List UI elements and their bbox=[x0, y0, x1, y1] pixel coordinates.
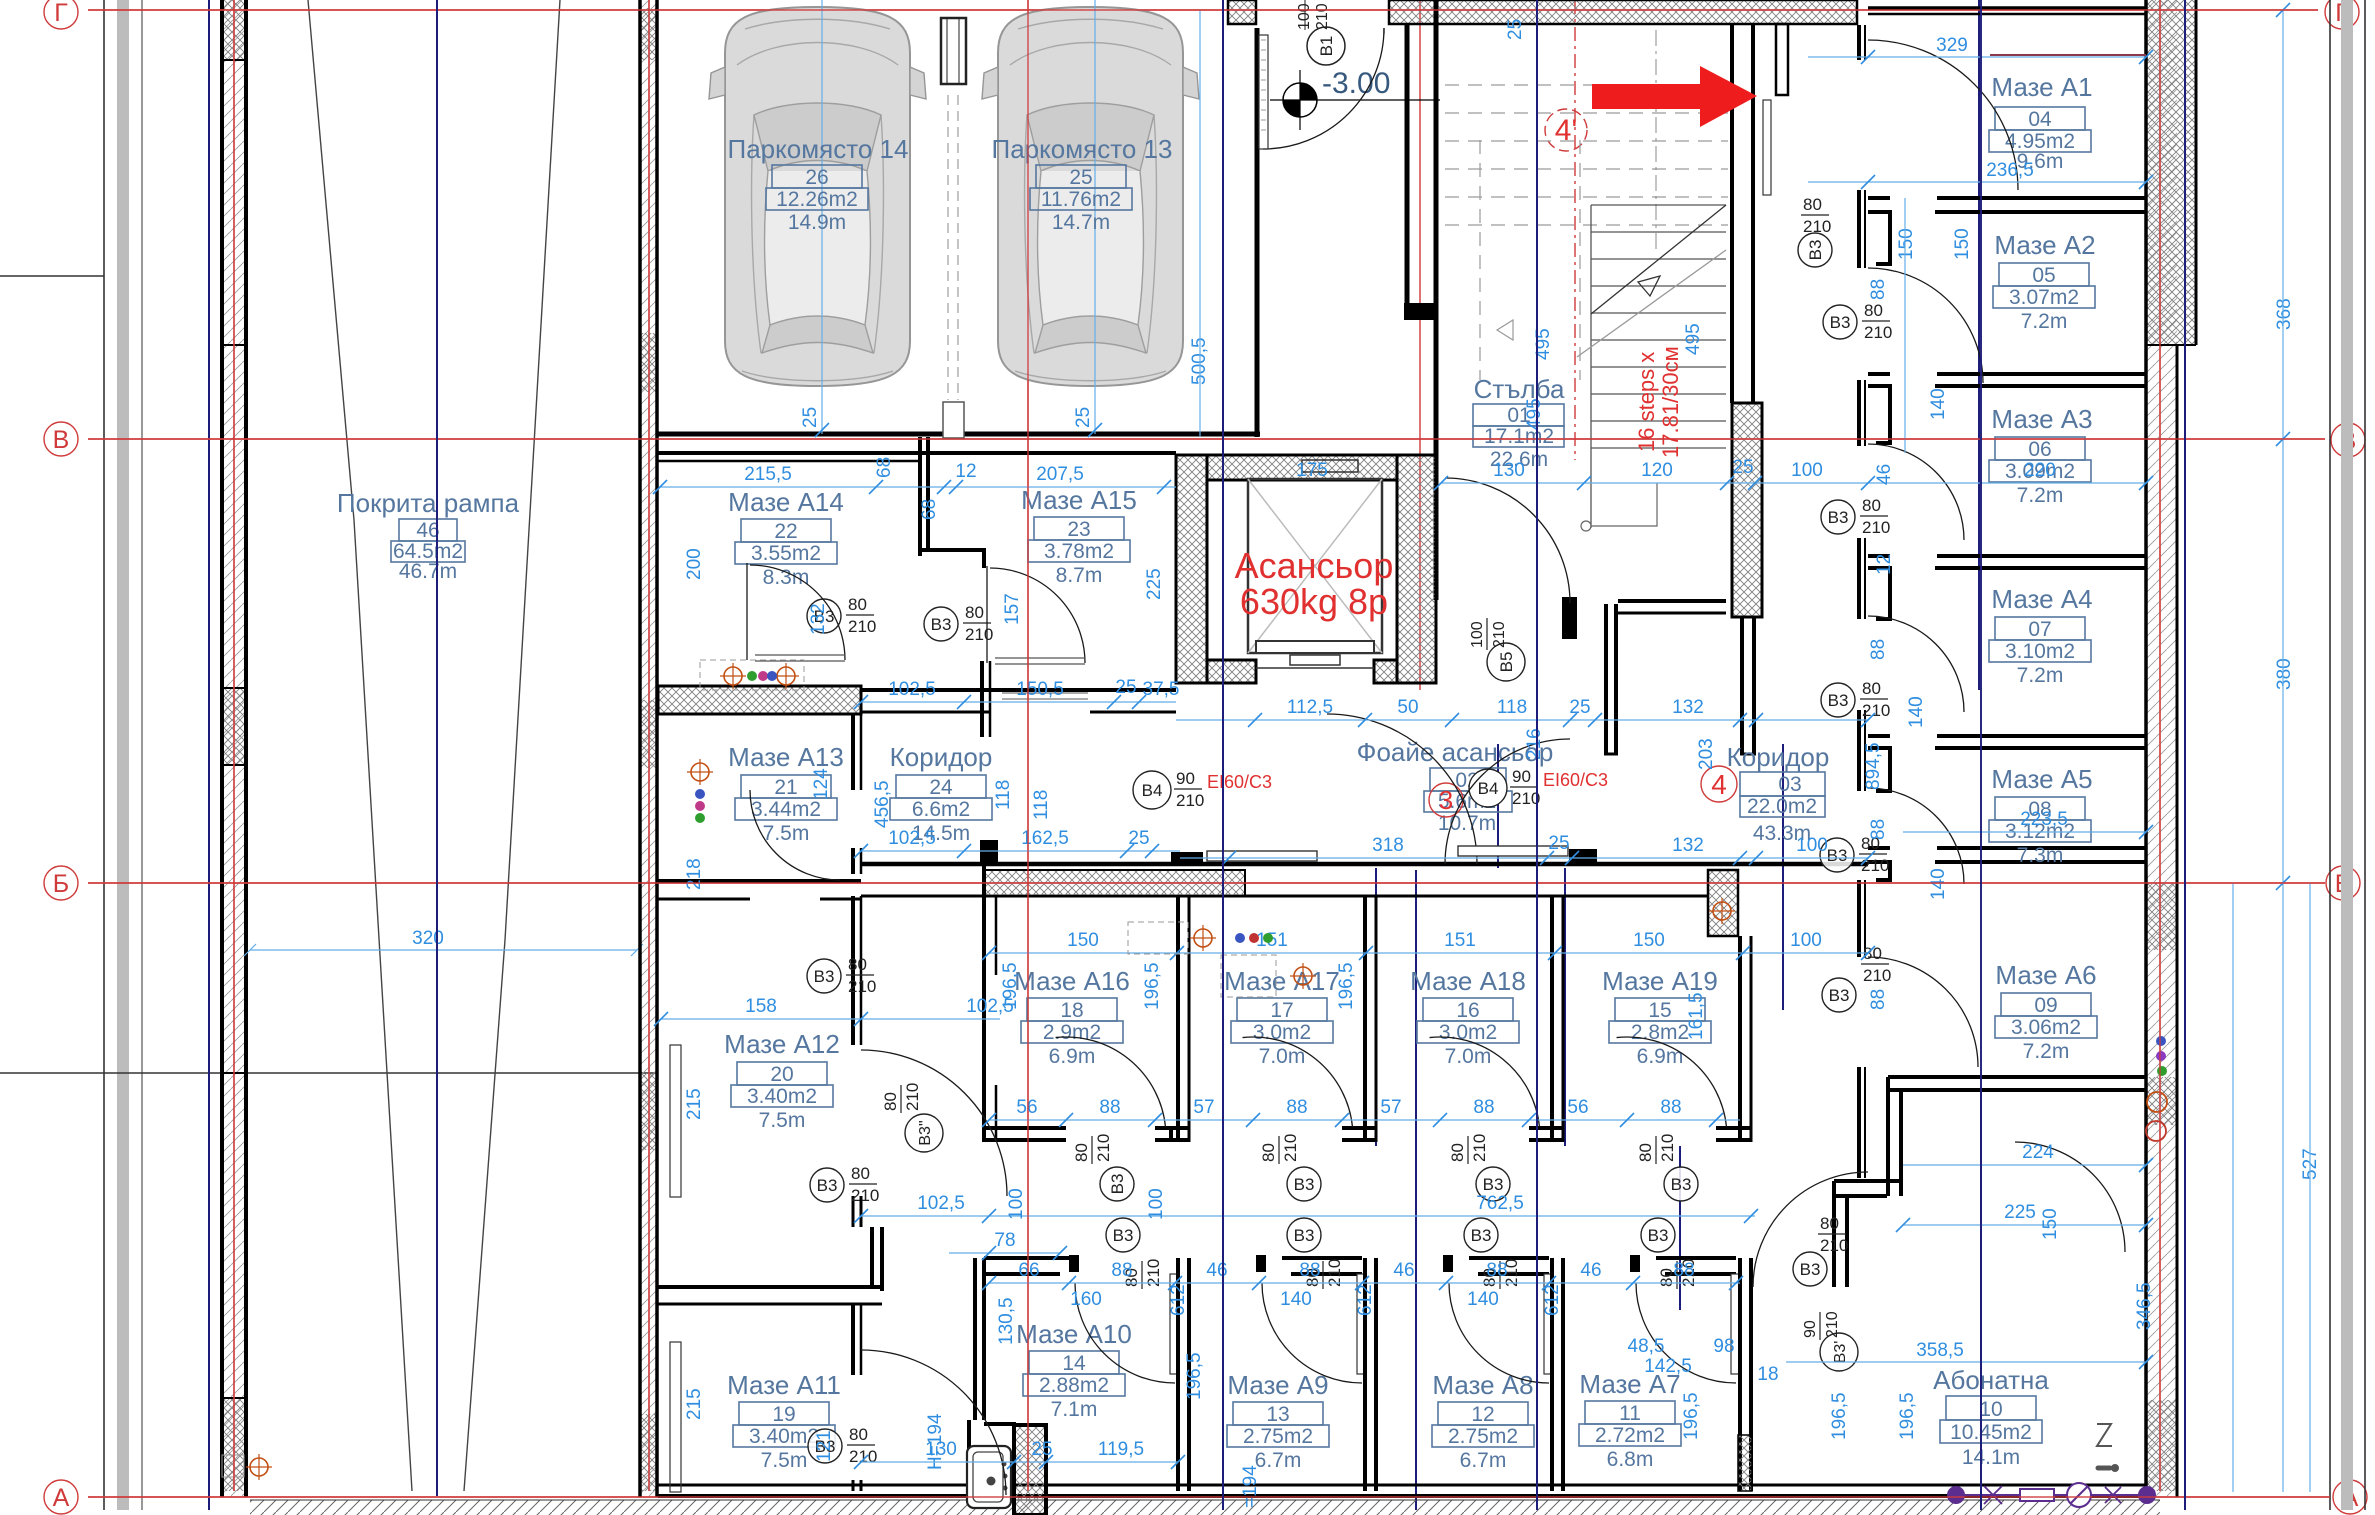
svg-text:196,5: 196,5 bbox=[1681, 1392, 1702, 1440]
door arc B4 foyer bbox=[1445, 739, 1597, 864]
svg-text:200: 200 bbox=[684, 548, 705, 580]
svg-text:Мазе А2: Мазе А2 bbox=[1994, 230, 2095, 260]
svg-text:Паркомясто 14: Паркомясто 14 bbox=[728, 134, 909, 164]
svg-text:23: 23 bbox=[1067, 518, 1090, 541]
svg-text:88: 88 bbox=[1673, 1260, 1694, 1281]
svg-text:102,5: 102,5 bbox=[917, 1193, 965, 1214]
svg-text:88: 88 bbox=[1286, 1097, 1307, 1118]
dim chain 236,5 bbox=[1808, 160, 2153, 189]
door arc А3 bbox=[1868, 444, 1964, 540]
door arc А5 bbox=[1868, 788, 1964, 884]
door arc А19 bbox=[1617, 1027, 1727, 1137]
wire: thin site line bbox=[141, 0, 143, 1510]
label: Паркомясто 13 bbox=[992, 134, 1173, 234]
svg-text:612: 612 bbox=[1355, 1284, 1376, 1316]
svg-text:630kg 8p: 630kg 8p bbox=[1240, 581, 1388, 622]
door arc А8 bbox=[1449, 1283, 1549, 1383]
svg-text:102,5: 102,5 bbox=[888, 828, 936, 849]
svg-text:7.2m: 7.2m bbox=[2017, 664, 2064, 687]
svg-text:25: 25 bbox=[1548, 833, 1569, 854]
label: Паркомясто 14 bbox=[728, 134, 909, 234]
svg-text:6.7m: 6.7m bbox=[1255, 1449, 1302, 1472]
svg-text:132: 132 bbox=[808, 603, 829, 635]
wire: long hline left at 1073 bbox=[0, 1072, 658, 1074]
svg-text:57: 57 bbox=[1193, 1097, 1214, 1118]
label: axis 4' bbox=[1545, 109, 1587, 151]
svg-text:218: 218 bbox=[684, 858, 705, 890]
door tag B3' bottom bbox=[1802, 1311, 1858, 1371]
svg-text:88: 88 bbox=[1868, 279, 1889, 300]
node: navy axis x1979 upper bbox=[1978, 0, 1980, 690]
wall: parking/lobby separator x1257 bbox=[1255, 28, 1260, 437]
svg-text:150,5: 150,5 bbox=[1016, 679, 1064, 700]
svg-text:3.0m2: 3.0m2 bbox=[1253, 1021, 1311, 1044]
door arc А9 bbox=[1262, 1283, 1362, 1383]
wall: door stub top corridor bbox=[1763, 24, 1788, 195]
svg-text:132: 132 bbox=[1672, 697, 1704, 718]
svg-text:4': 4' bbox=[1555, 114, 1577, 147]
label: red circle 3 bbox=[1429, 783, 1463, 817]
wall: stairwell right wall x1730-1755 bbox=[1732, 24, 1762, 617]
wire: site boundary line left bbox=[103, 0, 105, 1510]
svg-text:25: 25 bbox=[1505, 19, 1526, 40]
svg-text:236,5: 236,5 bbox=[1986, 160, 2034, 181]
svg-text:B4: B4 bbox=[1142, 781, 1163, 800]
bottom hatch strip bbox=[250, 1500, 2160, 1515]
label: Покрита рампа bbox=[337, 488, 520, 583]
svg-text:3.40m2: 3.40m2 bbox=[747, 1085, 817, 1108]
svg-text:3.78m2: 3.78m2 bbox=[1044, 540, 1114, 563]
svg-text:7.2m: 7.2m bbox=[2023, 1040, 2070, 1063]
svg-text:15: 15 bbox=[1648, 999, 1671, 1022]
svg-text:225: 225 bbox=[2004, 1202, 2036, 1223]
door arc А4 bbox=[1868, 616, 1964, 712]
svg-text:196,5: 196,5 bbox=[1000, 962, 1021, 1010]
svg-text:6.8m: 6.8m bbox=[1607, 1448, 1654, 1471]
svg-text:68: 68 bbox=[919, 499, 940, 520]
svg-text:320: 320 bbox=[412, 928, 444, 949]
svg-text:14.9m: 14.9m bbox=[788, 211, 846, 234]
svg-text:Коридор: Коридор bbox=[890, 742, 993, 772]
door tag B3 А12 bbox=[810, 1164, 879, 1205]
svg-text:140: 140 bbox=[1928, 868, 1949, 900]
svg-text:612: 612 bbox=[1168, 1284, 1189, 1316]
label: Мазе А14 bbox=[728, 487, 844, 589]
stairs upper flight dashed bbox=[1445, 85, 1728, 380]
svg-text:88: 88 bbox=[1099, 1097, 1120, 1118]
label: Мазе А19 bbox=[1602, 966, 1718, 1068]
svg-text:22: 22 bbox=[774, 520, 797, 543]
wall: right outer wall bbox=[2146, 0, 2196, 1497]
wall: A12 right wall x857 bbox=[853, 896, 861, 1227]
svg-text:118: 118 bbox=[1497, 697, 1527, 718]
svg-text:B3': B3' bbox=[1832, 1341, 1849, 1364]
svg-text:6.6m2: 6.6m2 bbox=[912, 798, 970, 821]
node: navy axis x1537 bbox=[1536, 0, 1538, 1510]
grid line Б bbox=[44, 866, 2360, 900]
car at parking 13 bbox=[982, 7, 1199, 386]
wall: left outer wall bbox=[639, 0, 658, 1497]
svg-text:6.9m: 6.9m bbox=[1637, 1045, 1684, 1068]
label: Мазе А7 bbox=[1579, 1369, 1681, 1471]
svg-text:140: 140 bbox=[1467, 1289, 1499, 1310]
svg-text:17: 17 bbox=[1270, 999, 1293, 1022]
label: Мазе А4 bbox=[1989, 584, 2093, 687]
dim chain y905 left bbox=[854, 828, 1180, 858]
wall: stairwell/corridor wall x1862 upper bbox=[1859, 25, 1865, 1178]
svg-text:17.81/30см: 17.81/30см bbox=[1658, 346, 1683, 458]
dim chain left top: 215,5 / 68 / 12 / 207,5 bbox=[653, 457, 1176, 520]
door tags B3 row under A16-A19 rotated labels bbox=[1072, 1134, 1134, 1201]
svg-text:142,5: 142,5 bbox=[1644, 1356, 1692, 1377]
node: red axis x2160 bbox=[2159, 0, 2161, 1491]
wall: parking bottom bbox=[658, 432, 1260, 437]
svg-text:88: 88 bbox=[1660, 1097, 1681, 1118]
svg-text:46: 46 bbox=[1393, 1260, 1414, 1281]
svg-text:19: 19 bbox=[772, 1403, 795, 1426]
svg-text:25: 25 bbox=[800, 407, 821, 428]
svg-text:7.3m: 7.3m bbox=[2017, 844, 2064, 867]
svg-text:25: 25 bbox=[1073, 407, 1094, 428]
svg-text:Б: Б bbox=[53, 870, 69, 898]
dim ticks top y33 bbox=[1505, 19, 1526, 40]
wall: room separator A5/A6 bbox=[1868, 848, 2146, 880]
svg-text:06: 06 bbox=[2028, 438, 2051, 461]
svg-text:25: 25 bbox=[1115, 677, 1136, 698]
wall hatch block A7 right bbox=[1738, 1435, 1752, 1491]
purple valve line bottom right bbox=[1948, 1460, 2155, 1507]
svg-text:3.06m2: 3.06m2 bbox=[2011, 1016, 2081, 1039]
svg-text:102,5: 102,5 bbox=[888, 679, 936, 700]
svg-text:100: 100 bbox=[1006, 1188, 1027, 1220]
svg-text:216: 216 bbox=[1524, 728, 1545, 760]
door arc А18 bbox=[1430, 1027, 1540, 1137]
dim chain top right 329 bbox=[1808, 35, 2153, 64]
svg-text:358,5: 358,5 bbox=[1916, 1340, 1964, 1361]
stairs arrow glyph bbox=[1497, 320, 1513, 340]
svg-text:150: 150 bbox=[2040, 1208, 2061, 1240]
symbols right wall stack bbox=[2146, 1036, 2167, 1141]
svg-text:215,5: 215,5 bbox=[744, 464, 792, 485]
svg-text:151: 151 bbox=[1444, 930, 1476, 951]
svg-text:Мазе А13: Мазе А13 bbox=[728, 742, 844, 772]
wall: corridor24 right x974 bbox=[980, 661, 998, 864]
door arc corridor03 bottom bbox=[1753, 1172, 1868, 1287]
svg-text:140: 140 bbox=[1280, 1289, 1312, 1310]
svg-text:6.7m: 6.7m bbox=[1460, 1449, 1507, 1472]
symbol at A18 top bbox=[1221, 955, 1316, 997]
door tag B5 bbox=[1469, 618, 1525, 681]
stairs leader circle bbox=[1581, 483, 1657, 531]
node: red axis x1028 bbox=[1027, 0, 1029, 1491]
wall: top band right of lobby door bbox=[1389, 0, 1857, 24]
svg-text:203: 203 bbox=[1696, 738, 1717, 770]
svg-text:7.0m: 7.0m bbox=[1445, 1045, 1492, 1068]
label: Мазе А9 bbox=[1227, 1370, 1329, 1472]
label: Фоайе асансьор 02 bbox=[1357, 737, 1554, 835]
svg-text:118: 118 bbox=[993, 780, 1014, 810]
node: red dashed axis 4' x1575 bbox=[1574, 0, 1576, 460]
svg-text:130: 130 bbox=[925, 1439, 957, 1460]
svg-text:456,5: 456,5 bbox=[872, 780, 893, 828]
svg-text:03: 03 bbox=[1778, 773, 1801, 796]
svg-text:90: 90 bbox=[1802, 1320, 1819, 1338]
svg-text:210: 210 bbox=[1824, 1311, 1841, 1338]
svg-text:90: 90 bbox=[1512, 767, 1531, 786]
label: Мазе А15 bbox=[1021, 485, 1137, 587]
wall: stair bottom wall bbox=[1562, 597, 1726, 639]
svg-text:157: 157 bbox=[1002, 593, 1023, 625]
svg-text:Мазе А10: Мазе А10 bbox=[1016, 1319, 1132, 1349]
svg-text:2.75m2: 2.75m2 bbox=[1243, 1425, 1313, 1448]
svg-text:2.8m2: 2.8m2 bbox=[1631, 1021, 1689, 1044]
svg-text:Мазе А15: Мазе А15 bbox=[1021, 485, 1137, 515]
dim 223,5 right bbox=[1903, 809, 2153, 839]
svg-text:210: 210 bbox=[1491, 621, 1508, 648]
label: Стълба bbox=[1473, 374, 1565, 471]
svg-text:57: 57 bbox=[1380, 1097, 1401, 1118]
svg-text:16 steps x: 16 steps x bbox=[1634, 352, 1659, 452]
svg-text:150: 150 bbox=[1896, 228, 1917, 260]
svg-text:346,5: 346,5 bbox=[2134, 1282, 2155, 1330]
svg-text:6.9m: 6.9m bbox=[1049, 1045, 1096, 1068]
wall: A11 right wall bbox=[853, 1304, 861, 1491]
door arc А12 bbox=[861, 1050, 1007, 1196]
svg-text:100: 100 bbox=[1791, 460, 1823, 481]
wall: A16-A19 bottom stubs bbox=[984, 1128, 1751, 1142]
svg-text:26: 26 bbox=[805, 166, 828, 189]
wall: A17/A18 partition bbox=[1365, 896, 1376, 1142]
dim 762,5 bbox=[854, 1193, 1758, 1223]
dim chain mid y702 left bbox=[854, 677, 1179, 709]
dim chain y1012: 158 102,5 bbox=[654, 996, 1014, 1026]
svg-text:150: 150 bbox=[1067, 930, 1099, 951]
dim 225 right low bbox=[1896, 1202, 2153, 1232]
svg-text:Покрита рампа: Покрита рампа bbox=[337, 488, 520, 518]
door arc B5 stairs bbox=[1445, 478, 1570, 603]
svg-text:10.45m2: 10.45m2 bbox=[1950, 1421, 2032, 1444]
svg-text:130: 130 bbox=[1493, 460, 1525, 481]
svg-text:118: 118 bbox=[1031, 790, 1052, 820]
label: Асансьор 630kg 8p bbox=[1235, 545, 1394, 622]
svg-text:14.1m: 14.1m bbox=[1962, 1446, 2020, 1469]
svg-text:88: 88 bbox=[1868, 989, 1889, 1010]
svg-text:10: 10 bbox=[1979, 1398, 2002, 1421]
svg-text:318: 318 bbox=[1372, 835, 1404, 856]
wall: building bottom bbox=[658, 1485, 2146, 1496]
svg-text:04: 04 bbox=[2028, 108, 2052, 131]
grid line А bbox=[44, 1480, 2367, 1514]
svg-text:223,5: 223,5 bbox=[2020, 809, 2068, 830]
svg-text:25: 25 bbox=[1732, 457, 1753, 478]
wall: rooms column top bbox=[1868, 8, 2145, 14]
svg-text:EI60/C3: EI60/C3 bbox=[1543, 770, 1608, 790]
svg-text:207,5: 207,5 bbox=[1036, 464, 1084, 485]
svg-text:100: 100 bbox=[1469, 621, 1486, 648]
wall: A16 left x990 bbox=[984, 864, 996, 1142]
dim chain y1355 right: 48,5 142,5 98 18 358,5 bbox=[1628, 1336, 2153, 1385]
svg-text:762,5: 762,5 bbox=[1476, 1193, 1524, 1214]
symbols at hall y936 bbox=[1128, 922, 1273, 954]
svg-text:Стълба: Стълба bbox=[1474, 374, 1565, 404]
wall: A18/A19 partition bbox=[1552, 896, 1563, 1142]
svg-text:37,5: 37,5 bbox=[1143, 679, 1180, 700]
svg-text:196,5: 196,5 bbox=[1829, 1392, 1850, 1440]
svg-text:495: 495 bbox=[1683, 323, 1704, 355]
door arc А16 bbox=[1056, 1027, 1166, 1137]
label: Мазе А13 bbox=[728, 742, 844, 845]
stairs mid rail dash-dot bbox=[1655, 30, 1657, 250]
door tag B3 А11 bbox=[808, 1425, 877, 1466]
svg-text:Асансьор: Асансьор bbox=[1235, 545, 1394, 586]
door tag B3 А15 bbox=[924, 603, 993, 644]
svg-text:329: 329 bbox=[1936, 35, 1968, 56]
door tag B4 + EI60/C3 right bbox=[1469, 767, 1608, 808]
svg-text:2.88m2: 2.88m2 bbox=[1039, 1374, 1109, 1397]
node: navy axis x2185 bbox=[2184, 0, 2186, 1510]
svg-text:88: 88 bbox=[1111, 1260, 1132, 1281]
svg-text:210: 210 bbox=[1176, 791, 1204, 810]
svg-text:368: 368 bbox=[2274, 298, 2295, 330]
svg-text:158: 158 bbox=[745, 996, 777, 1017]
svg-text:161,5: 161,5 bbox=[1686, 992, 1707, 1040]
svg-text:100: 100 bbox=[1146, 1188, 1167, 1220]
dim chain y1113: 56 88 57 88 57 88 56 12 88 bbox=[982, 1097, 1740, 1127]
dim 220 right bbox=[1925, 460, 2153, 490]
door arc А14 bbox=[750, 565, 845, 660]
svg-text:3: 3 bbox=[1439, 785, 1453, 815]
svg-text:Мазе А5: Мазе А5 bbox=[1991, 764, 2092, 794]
svg-text:175: 175 bbox=[1296, 460, 1328, 481]
label: Коридор 03 bbox=[1727, 742, 1830, 845]
svg-text:119,5: 119,5 bbox=[1098, 1439, 1144, 1460]
svg-text:21: 21 bbox=[774, 776, 797, 799]
svg-text:894,5: 894,5 bbox=[1863, 742, 1884, 790]
svg-text:25: 25 bbox=[1069, 166, 1092, 189]
svg-text:225: 225 bbox=[1144, 568, 1165, 600]
svg-text:78: 78 bbox=[994, 1230, 1015, 1251]
svg-text:495: 495 bbox=[1524, 398, 1545, 430]
stairs handrail diagonals bbox=[1577, 205, 1726, 357]
wall: room separator A1/A2 bbox=[1868, 198, 2146, 264]
wire: ramp edge left bbox=[308, 0, 412, 1491]
svg-text:3.07m2: 3.07m2 bbox=[2009, 286, 2079, 309]
svg-text:EI60/C3: EI60/C3 bbox=[1207, 772, 1272, 792]
elevator shaft walls bbox=[1176, 455, 1436, 683]
svg-text:Мазе А12: Мазе А12 bbox=[724, 1029, 840, 1059]
label: Мазе А5 bbox=[1989, 764, 2093, 867]
svg-text:7.2m: 7.2m bbox=[2017, 484, 2064, 507]
svg-text:56: 56 bbox=[1567, 1097, 1588, 1118]
svg-text:25: 25 bbox=[1569, 697, 1590, 718]
svg-text:3.10m2: 3.10m2 bbox=[2005, 640, 2075, 663]
door leaves bottom row bbox=[1170, 1274, 1739, 1374]
svg-text:150: 150 bbox=[1633, 930, 1665, 951]
symbols at A14 bottom bbox=[700, 660, 804, 690]
wall: room separator A3/A4 bbox=[1868, 556, 2146, 619]
door arc А17 bbox=[1243, 1027, 1353, 1137]
svg-text:100: 100 bbox=[1796, 835, 1828, 856]
svg-text:140: 140 bbox=[1928, 388, 1949, 420]
svg-text:07: 07 bbox=[2028, 618, 2051, 641]
svg-text:160: 160 bbox=[1070, 1289, 1102, 1310]
Z symbol bbox=[2097, 1424, 2118, 1471]
door arc А11 bbox=[861, 1350, 1006, 1495]
dim 78 bbox=[949, 1230, 1067, 1260]
wall: A14/A15 partition bbox=[920, 437, 984, 568]
svg-text:4: 4 bbox=[1711, 769, 1727, 800]
dim: 320 bbox=[244, 928, 643, 956]
node: navy axis x1981 lower bbox=[1980, 1090, 1982, 1510]
svg-text:8.3m: 8.3m bbox=[763, 566, 810, 589]
symbol bottom left bbox=[222, 1454, 272, 1480]
door leaf lobby bbox=[1259, 35, 1268, 149]
door tag B3'' rotated bbox=[881, 1083, 943, 1152]
wall: B-line band rooms row top bbox=[861, 864, 1868, 896]
door tag B3 А14 bbox=[807, 595, 876, 636]
wall: A19 right bbox=[1740, 936, 1751, 1142]
svg-text:90: 90 bbox=[1176, 769, 1195, 788]
svg-text:112,5: 112,5 bbox=[1287, 697, 1333, 718]
svg-text:В: В bbox=[53, 426, 70, 454]
label: Абонатна bbox=[1933, 1365, 2049, 1469]
svg-text:Мазе А11: Мазе А11 bbox=[727, 1370, 841, 1400]
svg-text:2.75m2: 2.75m2 bbox=[1448, 1425, 1518, 1448]
svg-text:88: 88 bbox=[1486, 1260, 1507, 1281]
door tag B3 А13 bbox=[807, 955, 876, 996]
svg-text:Мазе А16: Мазе А16 bbox=[1014, 966, 1130, 996]
node: red axis in wall x234 bbox=[233, 0, 235, 1491]
svg-text:88: 88 bbox=[1868, 639, 1889, 660]
label: B1 door circle bbox=[1296, 0, 1345, 65]
dim chain y1283 row1 bbox=[982, 1260, 1743, 1290]
label: Мазе А10 bbox=[1016, 1319, 1132, 1421]
svg-text:Коридор: Коридор bbox=[1727, 742, 1830, 772]
svg-text:14.7m: 14.7m bbox=[1052, 211, 1110, 234]
svg-text:121: 121 bbox=[814, 1430, 835, 1462]
svg-text:22.0m2: 22.0m2 bbox=[1747, 795, 1817, 818]
car at parking 14 bbox=[709, 7, 926, 386]
wall: lobby right x1407 bbox=[1404, 25, 1435, 320]
dim chain y1452: 130 / 119,5 / 25 bbox=[854, 1439, 1185, 1469]
svg-text:10.7m: 10.7m bbox=[1438, 812, 1496, 835]
wall: left retaining wall column bbox=[221, 0, 247, 1497]
svg-text:12: 12 bbox=[1471, 1403, 1494, 1426]
svg-text:88: 88 bbox=[1473, 1097, 1494, 1118]
wall: top band left of lobby door bbox=[1228, 0, 1256, 24]
parking centerlines bbox=[800, 0, 1102, 437]
label: Мазе А3 bbox=[1989, 404, 2093, 507]
svg-text:18: 18 bbox=[1757, 1364, 1778, 1385]
wall: rooms top wall y453 bbox=[658, 453, 1176, 461]
door arc А15 bbox=[990, 568, 1085, 663]
svg-text:13: 13 bbox=[1266, 1403, 1289, 1426]
dim chain y1297 row2 bbox=[1070, 1284, 1563, 1316]
dim 224 right bbox=[1903, 1142, 2153, 1172]
svg-text:196,5: 196,5 bbox=[1142, 962, 1163, 1010]
label: Мазе А2 bbox=[1993, 230, 2096, 333]
door tag B4 + EI60/C3 left bbox=[1133, 769, 1272, 810]
parking divider column bbox=[941, 18, 966, 438]
label: Мазе А12 bbox=[724, 1029, 840, 1132]
svg-text:-3.00: -3.00 bbox=[1322, 67, 1390, 100]
svg-text:612: 612 bbox=[1542, 1284, 1563, 1316]
svg-text:196,5: 196,5 bbox=[1336, 962, 1357, 1010]
wall: B-line band left (under A13) bbox=[658, 881, 861, 899]
svg-text:56: 56 bbox=[1016, 1097, 1037, 1118]
svg-text:100: 100 bbox=[1790, 930, 1822, 951]
wall: A16/A17 partition bbox=[1178, 896, 1189, 1142]
